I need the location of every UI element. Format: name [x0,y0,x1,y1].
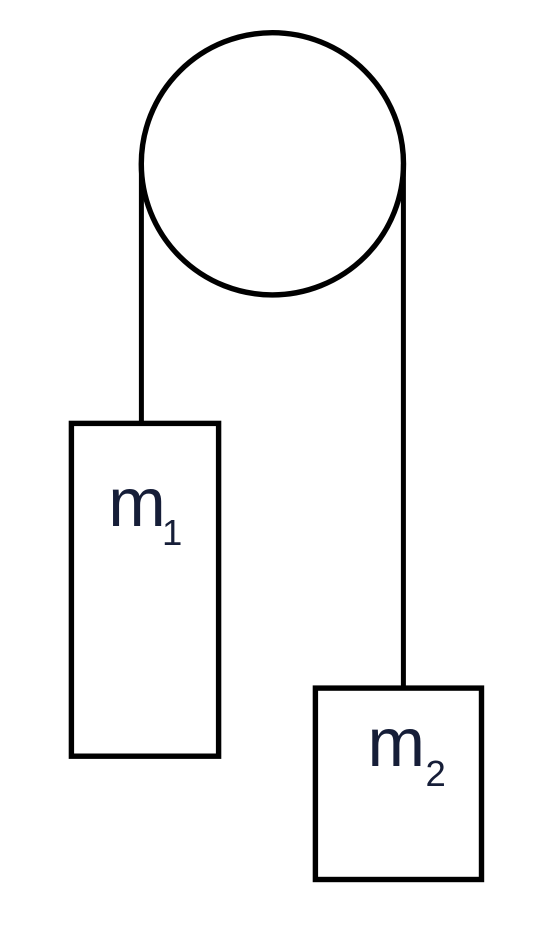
svg-text:1: 1 [162,512,182,553]
svg-text:m: m [108,464,165,541]
mass m1 box [71,423,218,756]
rope left (to mass m1) [139,164,144,423]
svg-text:2: 2 [426,753,446,794]
mass m2 box [315,688,481,879]
svg-text:m: m [368,704,425,781]
pulley circle [141,33,403,295]
rope right (to mass m2) [401,164,406,688]
